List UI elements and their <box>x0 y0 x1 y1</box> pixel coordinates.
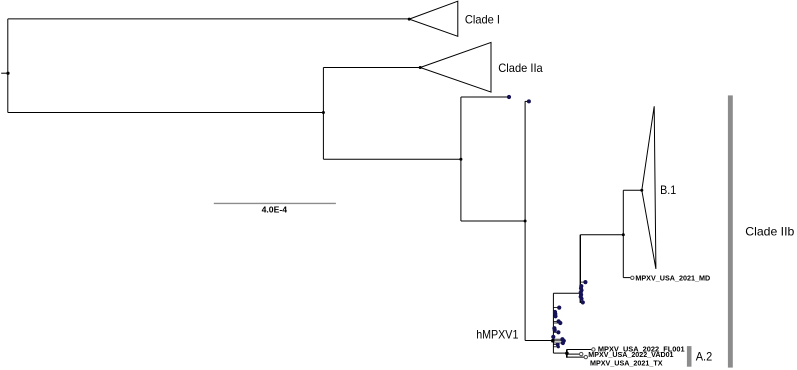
svg-text:MPXV_USA_2021_TX: MPXV_USA_2021_TX <box>590 359 663 368</box>
svg-text:Clade IIa: Clade IIa <box>498 61 543 75</box>
svg-text:hMPXV1: hMPXV1 <box>476 328 518 342</box>
svg-text:Clade IIb: Clade IIb <box>745 224 794 238</box>
svg-text:A.2: A.2 <box>696 350 713 364</box>
svg-text:MPXV_USA_2021_MD: MPXV_USA_2021_MD <box>635 273 710 282</box>
svg-text:Clade I: Clade I <box>465 12 500 26</box>
svg-text:4.0E-4: 4.0E-4 <box>262 205 288 215</box>
svg-text:B.1: B.1 <box>660 183 676 197</box>
